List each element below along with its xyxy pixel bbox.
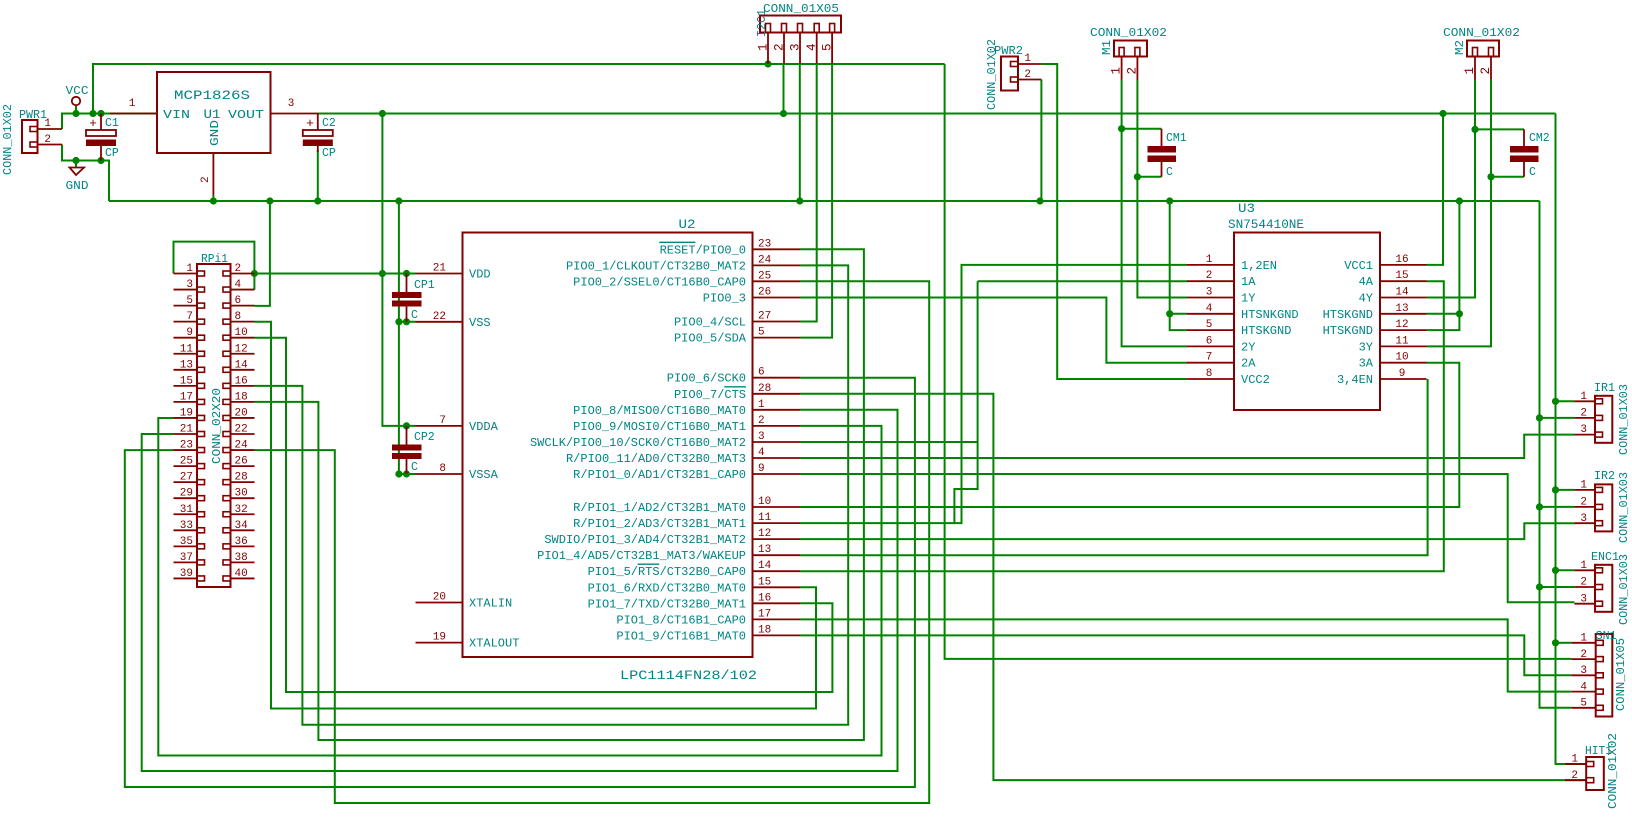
wire 3.3V to U3 VCC1 — [1427, 114, 1444, 265]
svg-text:34: 34 — [235, 520, 249, 532]
svg-text:6: 6 — [235, 295, 242, 307]
connector M2 CONN_01X02 — [1443, 27, 1520, 80]
svg-text:23: 23 — [758, 238, 771, 250]
svg-text:2: 2 — [1024, 69, 1031, 81]
IC U1 MCP1826S regulator — [110, 72, 319, 195]
svg-text:4: 4 — [1206, 303, 1213, 315]
capacitor CP2 — [392, 426, 435, 474]
svg-text:PWR1: PWR1 — [19, 109, 47, 122]
wire CONN_01X05 pin3 to GND rail — [799, 64, 801, 202]
wire U2 pin18 to SN1 pin3 — [800, 635, 1571, 675]
svg-text:13: 13 — [1395, 303, 1408, 315]
connector IR1 CONN_01X03 — [1574, 382, 1631, 455]
connector M1 CONN_01X02 — [1090, 27, 1167, 80]
wire 5V feed to SN1 pin 2 — [945, 64, 1572, 659]
svg-text:M1: M1 — [1101, 40, 1114, 55]
svg-text:R/PIO0_11/AD0/CT32B0_MAT3: R/PIO0_11/AD0/CT32B0_MAT3 — [566, 452, 746, 466]
wire C2 negative to GND rail — [317, 150, 319, 201]
svg-text:PIO1_8/CT16B1_CAP0: PIO1_8/CT16B1_CAP0 — [616, 613, 746, 627]
svg-text:3,4EN: 3,4EN — [1337, 373, 1373, 387]
connector HIT1 CONN_01X02 — [1565, 733, 1620, 809]
svg-text:VCC1: VCC1 — [1344, 259, 1373, 273]
svg-text:14: 14 — [235, 359, 249, 371]
svg-text:CONN_01X02: CONN_01X02 — [1607, 733, 1620, 809]
connector PWR1 CONN_01X02 — [2, 104, 62, 175]
wire U2 pin28 to HIT1 pin2 — [800, 394, 1586, 780]
svg-text:2: 2 — [235, 263, 242, 275]
svg-text:20: 20 — [235, 407, 248, 419]
IC U2 LPC1114FN28/102 — [416, 217, 801, 683]
svg-text:PIO1_4/AD5/CT32B1_MAT3/WAKEUP: PIO1_4/AD5/CT32B1_MAT3/WAKEUP — [537, 549, 746, 563]
svg-text:SN1: SN1 — [1596, 630, 1617, 643]
wire U1 GND pin to rail — [212, 195, 214, 201]
svg-text:12: 12 — [1395, 319, 1408, 331]
svg-text:CONN_01X03: CONN_01X03 — [1618, 554, 1631, 625]
wire U2 pin12 AD4 to IR2 pin3 — [800, 523, 1574, 539]
svg-text:3: 3 — [1580, 594, 1587, 606]
svg-text:SN754410NE: SN754410NE — [1228, 218, 1304, 232]
wire GND net: bottom rail and branches — [62, 145, 1574, 708]
svg-text:29: 29 — [180, 488, 193, 500]
svg-text:8: 8 — [235, 311, 242, 323]
wire RPi1 pins 1,2,4 VDD net — [174, 242, 416, 290]
connector IR2 CONN_01X03 — [1574, 470, 1631, 543]
svg-text:CP1: CP1 — [414, 279, 435, 292]
svg-text:10: 10 — [758, 496, 771, 508]
svg-text:CONN_01X05: CONN_01X05 — [763, 3, 839, 16]
svg-text:2: 2 — [1125, 67, 1139, 75]
svg-text:9: 9 — [186, 327, 193, 339]
svg-text:VDDA: VDDA — [469, 420, 499, 434]
svg-text:1: 1 — [1571, 754, 1578, 766]
wire CONN_01X05 pin4 to U2 pin27 SCL — [800, 64, 817, 322]
wire U2 pin11 AD3 to U3 1,2EN — [800, 265, 1187, 523]
svg-text:6: 6 — [758, 367, 765, 379]
wire VCC 3.3V output rail to right-side chain — [319, 110, 1587, 764]
svg-text:XTALIN: XTALIN — [469, 597, 512, 611]
svg-text:HTSNKGND: HTSNKGND — [1241, 308, 1299, 322]
wire CONN_01X05 pin5 to U2 pin5 SDA — [800, 64, 832, 338]
svg-text:VSS: VSS — [469, 316, 491, 330]
svg-text:8: 8 — [439, 463, 446, 475]
svg-text:3: 3 — [186, 279, 193, 291]
capacitor CP1 — [392, 274, 435, 323]
wire M2 pin1 to U3 4Y with CM2 tap — [1427, 80, 1525, 298]
svg-text:26: 26 — [758, 287, 771, 299]
svg-text:2: 2 — [200, 176, 212, 183]
svg-text:16: 16 — [758, 592, 771, 604]
svg-text:C1: C1 — [105, 117, 119, 130]
svg-text:1: 1 — [186, 263, 193, 275]
wire M1 pin1 to U3 2Y with CM1 tap — [1118, 80, 1187, 347]
svg-text:4: 4 — [805, 43, 819, 51]
wire PWR2 pin1 to U3 VCC2 — [1041, 64, 1186, 379]
svg-text:4A: 4A — [1359, 275, 1374, 289]
svg-text:U1: U1 — [204, 107, 221, 122]
wire U2 pin23 RESET to RPi1 pin18 — [255, 249, 864, 740]
svg-text:HTSKGND: HTSKGND — [1323, 324, 1373, 338]
svg-text:ENC1: ENC1 — [1591, 551, 1619, 564]
svg-text:PIO1_5/RTS/CT32B0_CAP0: PIO1_5/RTS/CT32B0_CAP0 — [588, 565, 746, 579]
svg-text:5: 5 — [1580, 698, 1587, 710]
svg-text:18: 18 — [758, 624, 771, 636]
connector P5 CONN_01X05 I2C1 — [756, 3, 841, 64]
svg-text:24: 24 — [758, 254, 772, 266]
svg-text:HTSKGND: HTSKGND — [1323, 308, 1373, 322]
svg-text:RESET/PIO0_0: RESET/PIO0_0 — [660, 243, 746, 257]
svg-text:U3: U3 — [1238, 201, 1255, 216]
svg-text:1: 1 — [757, 43, 771, 51]
power flag VCC — [66, 84, 89, 105]
svg-text:9: 9 — [1399, 368, 1406, 380]
svg-text:12: 12 — [758, 528, 771, 540]
svg-text:PIO0_8/MISO0/CT16B0_MAT0: PIO0_8/MISO0/CT16B0_MAT0 — [573, 404, 746, 418]
svg-text:3: 3 — [288, 98, 295, 110]
connector RPi1 CONN_02X20 — [174, 253, 255, 587]
svg-text:MCP1826S: MCP1826S — [174, 88, 250, 103]
svg-text:3: 3 — [1206, 287, 1213, 299]
svg-text:PIO0_2/SSEL0/CT16B0_CAP0: PIO0_2/SSEL0/CT16B0_CAP0 — [573, 275, 746, 289]
capacitor C2 polarized — [303, 114, 336, 161]
svg-text:20: 20 — [433, 592, 446, 604]
svg-text:4: 4 — [758, 447, 765, 459]
svg-text:CP: CP — [322, 147, 336, 160]
svg-text:VDD: VDD — [469, 268, 491, 282]
svg-text:CM2: CM2 — [1529, 132, 1550, 145]
svg-text:7: 7 — [1206, 352, 1213, 364]
svg-text:2: 2 — [1580, 497, 1587, 509]
svg-text:21: 21 — [433, 263, 447, 275]
svg-text:35: 35 — [180, 536, 193, 548]
svg-text:XTALOUT: XTALOUT — [469, 637, 519, 651]
svg-text:+: + — [89, 116, 97, 131]
svg-text:28: 28 — [235, 472, 248, 484]
svg-text:24: 24 — [235, 440, 249, 452]
svg-text:5: 5 — [186, 295, 193, 307]
wire CONN_01X05 pin2 to 3.3V rail — [783, 64, 785, 114]
svg-text:R/PIO1_2/AD3/CT32B1_MAT1: R/PIO1_2/AD3/CT32B1_MAT1 — [573, 517, 746, 531]
svg-text:VCC: VCC — [66, 84, 89, 98]
svg-text:1: 1 — [1024, 53, 1031, 65]
svg-text:11: 11 — [1395, 335, 1409, 347]
svg-text:M2: M2 — [1454, 40, 1467, 55]
svg-text:C: C — [1529, 166, 1536, 179]
svg-text:19: 19 — [180, 407, 193, 419]
svg-text:1: 1 — [1580, 480, 1587, 492]
wire U2 pin15 RXD to RPi1 pin8 — [255, 322, 817, 709]
wire U2 pin24 CLKOUT to RPi1 pin16 — [255, 265, 849, 724]
capacitor CM2 — [1510, 129, 1550, 179]
wire GND rail to U3 HTSNKGND pins 4,5 — [1166, 201, 1187, 330]
svg-text:1: 1 — [1206, 254, 1213, 266]
svg-text:3: 3 — [758, 431, 765, 443]
IC U3 SN754410NE — [1187, 201, 1427, 410]
svg-text:27: 27 — [180, 472, 193, 484]
svg-text:C: C — [411, 309, 418, 322]
svg-text:2: 2 — [1580, 649, 1587, 661]
svg-text:2: 2 — [1206, 270, 1213, 282]
wire U2 pin14 to U3 4A — [800, 281, 1444, 571]
svg-text:SWCLK/PIO0_10/SCK0/CT16B0_MAT2: SWCLK/PIO0_10/SCK0/CT16B0_MAT2 — [530, 436, 746, 450]
wire U2 pin26 PIO0_3 to U3 2A — [800, 298, 1187, 363]
svg-text:PIO0_6/SCK0: PIO0_6/SCK0 — [667, 372, 746, 386]
svg-text:2: 2 — [1479, 67, 1493, 75]
wire U2 pin10 AD2 to U3 3A — [800, 363, 1459, 507]
svg-text:2: 2 — [44, 134, 51, 146]
svg-text:+: + — [306, 116, 314, 131]
svg-text:25: 25 — [180, 456, 193, 468]
wire U2 pin1 MISO0 to RPi1 pin21 — [142, 410, 898, 771]
svg-text:16: 16 — [235, 375, 248, 387]
svg-text:GND: GND — [66, 179, 89, 193]
svg-text:PIO0_1/CLKOUT/CT32B0_MAT2: PIO0_1/CLKOUT/CT32B0_MAT2 — [566, 259, 746, 273]
svg-text:12: 12 — [235, 343, 248, 355]
svg-text:13: 13 — [758, 544, 771, 556]
svg-text:R/PIO1_0/AD1/CT32B1_CAP0: R/PIO1_0/AD1/CT32B1_CAP0 — [573, 468, 746, 482]
svg-text:8: 8 — [1206, 368, 1213, 380]
svg-text:VCC2: VCC2 — [1241, 373, 1270, 387]
svg-text:I2C1: I2C1 — [756, 9, 769, 37]
wire VCC input rail and top 5V rail — [62, 60, 945, 129]
svg-text:4: 4 — [235, 279, 242, 291]
svg-text:PIO1_6/RXD/CT32B0_MAT0: PIO1_6/RXD/CT32B0_MAT0 — [588, 581, 746, 595]
svg-text:19: 19 — [433, 632, 446, 644]
svg-text:PIO0_9/MOSI0/CT16B0_MAT1: PIO0_9/MOSI0/CT16B0_MAT1 — [573, 420, 746, 434]
svg-text:10: 10 — [1395, 352, 1408, 364]
svg-text:17: 17 — [758, 608, 771, 620]
wire U2 pin16 TXD to RPi1 pin10 — [255, 338, 833, 692]
svg-text:CONN_01X02: CONN_01X02 — [986, 39, 999, 110]
svg-text:3: 3 — [789, 43, 803, 51]
wire U2 pin3 SWCLK to U3 1A — [800, 281, 1187, 523]
svg-text:15: 15 — [1395, 270, 1408, 282]
svg-text:R/PIO1_1/AD2/CT32B1_MAT0: R/PIO1_1/AD2/CT32B1_MAT0 — [573, 501, 746, 515]
svg-text:1: 1 — [1580, 633, 1587, 645]
svg-text:CONN_01X02: CONN_01X02 — [1443, 27, 1520, 40]
svg-text:26: 26 — [235, 456, 248, 468]
svg-text:11: 11 — [180, 343, 194, 355]
svg-text:RPi1: RPi1 — [201, 253, 228, 266]
connector ENC1 CONN_01X03 — [1574, 551, 1631, 625]
svg-text:PIO0_3: PIO0_3 — [703, 292, 746, 306]
svg-text:6: 6 — [1206, 335, 1213, 347]
wire U2 pin17 to SN1 pin4 — [800, 619, 1571, 691]
wire U2 pin9 AD1 to ENC1 pin3 — [800, 474, 1574, 602]
svg-text:PIO0_4/SCL: PIO0_4/SCL — [674, 316, 746, 330]
svg-text:30: 30 — [235, 488, 248, 500]
svg-text:PIO1_9/CT16B1_MAT0: PIO1_9/CT16B1_MAT0 — [616, 629, 746, 643]
connector PWR2 CONN_01X02 — [986, 39, 1041, 110]
svg-text:1: 1 — [758, 399, 765, 411]
wire PWR2 pin2 to GND rail — [1040, 80, 1042, 202]
svg-text:C: C — [411, 461, 418, 474]
svg-text:2: 2 — [758, 415, 765, 427]
svg-text:11: 11 — [758, 512, 772, 524]
svg-text:PIO0_7/CTS: PIO0_7/CTS — [674, 388, 746, 402]
svg-text:25: 25 — [758, 270, 771, 282]
svg-text:36: 36 — [235, 536, 248, 548]
svg-text:33: 33 — [180, 520, 193, 532]
connector SN1 CONN_01X05 — [1571, 630, 1628, 717]
wire M2 pin2 to U3 3Y with CM2 tap — [1427, 80, 1525, 347]
svg-text:23: 23 — [180, 440, 193, 452]
svg-text:7: 7 — [186, 311, 193, 323]
svg-text:C2: C2 — [322, 117, 336, 130]
svg-text:3: 3 — [1580, 424, 1587, 436]
svg-text:CP2: CP2 — [414, 431, 435, 444]
svg-text:3: 3 — [1580, 513, 1587, 525]
svg-text:13: 13 — [180, 359, 193, 371]
svg-text:2: 2 — [1571, 770, 1578, 782]
svg-text:5: 5 — [1206, 319, 1213, 331]
svg-text:4: 4 — [1580, 682, 1587, 694]
svg-text:37: 37 — [180, 552, 193, 564]
svg-text:PIO0_5/SDA: PIO0_5/SDA — [674, 332, 747, 346]
svg-text:LPC1114FN28/102: LPC1114FN28/102 — [620, 668, 757, 683]
svg-text:C: C — [1166, 166, 1173, 179]
svg-text:18: 18 — [235, 391, 248, 403]
svg-text:2: 2 — [1580, 408, 1587, 420]
svg-text:5: 5 — [821, 43, 835, 51]
svg-text:1: 1 — [1463, 67, 1477, 75]
wire U2 pin13 to U3 3,4EN — [800, 379, 1428, 555]
svg-text:CONN_01X05: CONN_01X05 — [1615, 638, 1628, 711]
svg-text:VIN: VIN — [163, 108, 190, 122]
svg-text:15: 15 — [758, 576, 771, 588]
svg-text:22: 22 — [235, 424, 248, 436]
wire GND rail to U2 VSS and VSSA — [395, 201, 415, 478]
svg-text:1Y: 1Y — [1241, 292, 1255, 306]
svg-text:4Y: 4Y — [1359, 292, 1373, 306]
capacitor CM1 — [1148, 129, 1187, 179]
svg-text:2A: 2A — [1241, 357, 1256, 371]
svg-text:CONN_01X03: CONN_01X03 — [1618, 384, 1631, 455]
wire GND rail to U3 HTSKGND pins 13,12 — [1427, 201, 1464, 330]
svg-text:CM1: CM1 — [1166, 132, 1187, 145]
svg-text:14: 14 — [758, 560, 772, 572]
svg-text:CONN_02X20: CONN_02X20 — [211, 388, 224, 464]
svg-text:1,2EN: 1,2EN — [1241, 259, 1277, 273]
svg-text:CONN_01X02: CONN_01X02 — [2, 104, 15, 175]
svg-text:22: 22 — [433, 311, 446, 323]
svg-text:2Y: 2Y — [1241, 340, 1255, 354]
svg-text:9: 9 — [758, 463, 765, 475]
svg-text:10: 10 — [235, 327, 248, 339]
svg-text:14: 14 — [1395, 287, 1409, 299]
svg-text:1: 1 — [1580, 391, 1587, 403]
wire 3.3V to U2 VDD and VDDA — [379, 114, 416, 430]
svg-text:39: 39 — [180, 568, 193, 580]
svg-text:HTSKGND: HTSKGND — [1241, 324, 1291, 338]
wire U2 pin6 SCK0 to RPi1 pin23 — [125, 378, 915, 787]
svg-text:CONN_01X03: CONN_01X03 — [1618, 472, 1631, 543]
svg-text:1A: 1A — [1241, 275, 1256, 289]
wire RPi1 pin6 to GND rail — [255, 201, 270, 306]
svg-text:40: 40 — [235, 568, 248, 580]
svg-text:7: 7 — [439, 415, 446, 427]
capacitor C1 polarized — [86, 114, 119, 161]
svg-text:38: 38 — [235, 552, 248, 564]
svg-text:15: 15 — [180, 375, 193, 387]
svg-text:IR1: IR1 — [1594, 382, 1615, 395]
svg-text:GND: GND — [208, 120, 222, 146]
svg-text:27: 27 — [758, 311, 771, 323]
svg-text:VOUT: VOUT — [228, 108, 264, 122]
svg-text:CP: CP — [105, 147, 119, 160]
svg-text:IR2: IR2 — [1594, 470, 1615, 483]
svg-text:28: 28 — [758, 383, 771, 395]
svg-text:2: 2 — [1580, 577, 1587, 589]
svg-text:1: 1 — [1110, 67, 1124, 75]
svg-text:3Y: 3Y — [1359, 340, 1373, 354]
wire U2 pin2 MOSI0 to RPi1 pin19 — [158, 418, 881, 756]
wire U2 pin4 AD0 to IR1 pin3 — [800, 435, 1574, 458]
svg-text:1: 1 — [1580, 560, 1587, 572]
ground symbol GND — [66, 168, 89, 194]
svg-text:VSSA: VSSA — [469, 468, 499, 482]
svg-text:1: 1 — [129, 98, 136, 110]
svg-text:U2: U2 — [679, 217, 696, 232]
svg-text:3A: 3A — [1359, 357, 1374, 371]
svg-text:SWDIO/PIO1_3/AD4/CT32B1_MAT2: SWDIO/PIO1_3/AD4/CT32B1_MAT2 — [544, 533, 746, 547]
svg-text:PIO1_7/TXD/CT32B0_MAT1: PIO1_7/TXD/CT32B0_MAT1 — [588, 597, 746, 611]
svg-text:CONN_01X02: CONN_01X02 — [1090, 27, 1167, 40]
svg-text:16: 16 — [1395, 254, 1408, 266]
svg-text:2: 2 — [773, 43, 787, 51]
svg-text:3: 3 — [1580, 665, 1587, 677]
svg-text:5: 5 — [758, 327, 765, 339]
svg-text:21: 21 — [180, 424, 194, 436]
svg-text:17: 17 — [180, 391, 193, 403]
svg-text:31: 31 — [180, 504, 194, 516]
svg-text:32: 32 — [235, 504, 248, 516]
wire M1 pin2 to U3 1Y with CM1 tap — [1134, 80, 1187, 298]
wire U2 pin25 SSEL0 to RPi1 pin24 — [255, 281, 930, 803]
